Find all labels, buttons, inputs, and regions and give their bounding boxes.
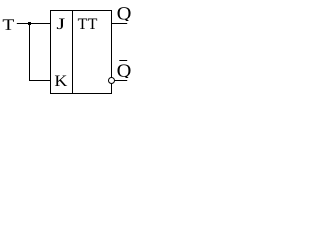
label Q-bar [117, 64, 131, 79]
wire junction down [29, 24, 31, 81]
node junction on T wire [28, 22, 31, 25]
wire to K input [29, 80, 51, 82]
flip-flop U1 body [51, 11, 112, 94]
pin label K [55, 76, 67, 86]
wire Q output [112, 23, 128, 25]
overline of Q-bar [119, 60, 127, 62]
wire T input to J [17, 23, 51, 25]
label Q [118, 7, 132, 22]
pin label J [57, 19, 65, 30]
wire Q-bar output [115, 80, 127, 82]
control section divider [72, 11, 74, 94]
label TT (flip-flop symbol) [78, 19, 87, 29]
input label T [3, 19, 14, 29]
inversion bubble on inverted output [109, 78, 115, 84]
